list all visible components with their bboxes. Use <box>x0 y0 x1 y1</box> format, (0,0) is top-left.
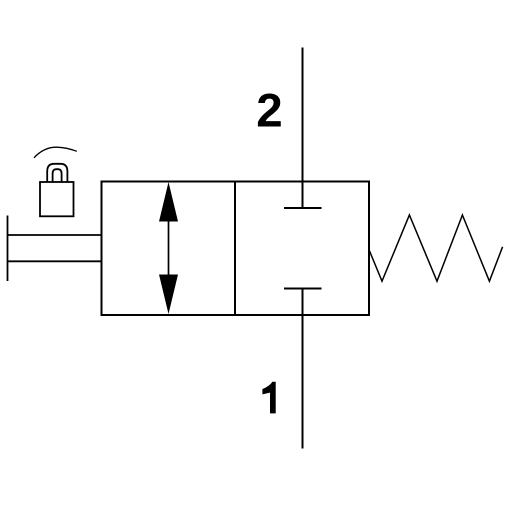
padlock shackle outer <box>47 164 67 182</box>
push rod actuator upper line <box>8 234 102 236</box>
push rod actuator lower line <box>8 260 102 262</box>
valve position box right (square 2) <box>235 182 369 316</box>
label port 1 <box>262 382 275 414</box>
padlock body <box>40 182 74 216</box>
spring return <box>369 215 503 281</box>
push rod actuator end plate <box>7 216 9 282</box>
blocked port T symbol top <box>284 207 322 209</box>
port 2 line (top) <box>302 48 304 209</box>
port 1 line (bottom) <box>302 289 304 449</box>
valve position box left (square 1) <box>102 182 236 316</box>
padlock shackle inner <box>53 169 62 182</box>
swing arc over padlock <box>34 147 77 158</box>
label port 2 <box>256 85 282 138</box>
double-headed arrow in left square <box>159 182 178 314</box>
svg-text:2: 2 <box>256 85 282 138</box>
blocked port T symbol bottom <box>284 288 322 290</box>
